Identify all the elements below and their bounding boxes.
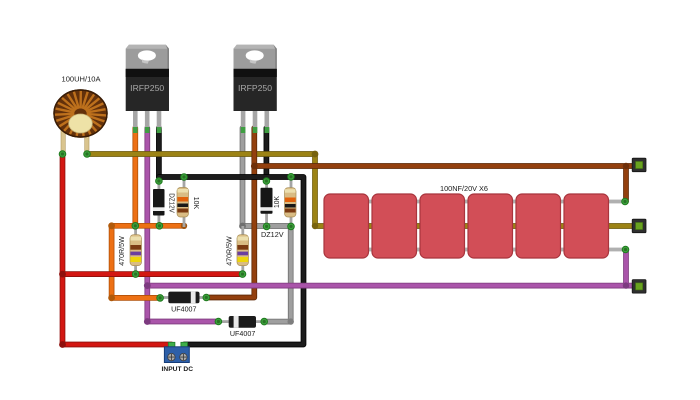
wire black Q1 source drop <box>156 128 162 177</box>
resistor R3 10K <box>285 179 297 227</box>
resistor R1 10K <box>177 179 189 227</box>
node zener DZ2 bottom <box>263 223 270 230</box>
wire olive inductor output bus <box>87 154 639 226</box>
svg-text:100UH/10A: 100UH/10A <box>62 75 101 84</box>
node orange junction R2 top <box>132 223 139 230</box>
wire brown top horizontal to connector J1 <box>254 166 639 202</box>
node inductor right leg <box>84 151 91 158</box>
wire orange Q1 gate vertical <box>132 128 138 226</box>
bend dot red corner <box>59 341 66 348</box>
svg-text:10K: 10K <box>192 197 201 210</box>
transistor Q2 IRFP250 <box>234 45 277 133</box>
svg-text:IRFP250: IRFP250 <box>130 83 164 93</box>
wire black gate bus and ground return <box>159 177 304 345</box>
wire gray Q2 leg1 vertical and bus <box>243 128 292 226</box>
zener diode DZ1 DZ12V <box>153 179 165 227</box>
svg-text:INPUT DC: INPUT DC <box>162 366 194 373</box>
diode D2 UF4007 <box>217 316 265 328</box>
svg-text:470R/5W: 470R/5W <box>117 236 126 266</box>
capacitor C5 <box>516 194 561 258</box>
bend dot brown tee <box>251 163 258 170</box>
bend dot orange corner lower <box>108 295 115 302</box>
node resistor R3 bottom <box>288 223 295 230</box>
bend dot purple corner <box>144 318 151 325</box>
wire brown Q2 leg2 to diode D1 <box>206 128 254 298</box>
svg-text:DZ12V: DZ12V <box>261 230 284 239</box>
bend dot orange end at resistor R2 <box>181 223 187 229</box>
capacitor C3 <box>420 194 465 258</box>
bend dot red tee <box>59 271 66 278</box>
capacitor C6 <box>564 194 609 258</box>
capacitor C1 <box>324 194 369 258</box>
wire gray lower to diode D2 <box>264 226 291 322</box>
bend dot gray corner <box>288 318 294 324</box>
node resistor R3 top <box>288 174 295 181</box>
capacitor lead bus top <box>350 200 623 204</box>
svg-text:10K: 10K <box>272 196 281 208</box>
svg-text:UF4007: UF4007 <box>230 329 255 338</box>
transistor Q1 IRFP250 <box>126 45 169 133</box>
svg-text:IRFP250: IRFP250 <box>238 83 272 93</box>
capacitor C2 <box>372 194 417 258</box>
bend dot purple corner right <box>623 282 629 288</box>
node capacitor bottom right <box>622 246 629 253</box>
wire black Q2 source drop <box>264 128 270 177</box>
node resistor R1 top <box>181 174 188 181</box>
wire red input positive <box>63 154 243 345</box>
node capacitor top right <box>622 198 629 205</box>
node resistor R2 bottom <box>132 271 139 278</box>
bend dot olive corner lower <box>312 223 318 229</box>
bend dot olive corner top <box>312 151 319 158</box>
bend dot gray junction <box>239 223 246 230</box>
connector J2 <box>632 219 646 233</box>
connector J3 <box>632 280 646 294</box>
node diode D2 anode <box>215 318 222 325</box>
capacitor C4 <box>468 194 513 258</box>
node diode D1 cathode <box>203 294 210 301</box>
connector J1 <box>632 158 646 172</box>
node inductor left leg <box>59 151 66 158</box>
node zener DZ1 bottom <box>156 223 163 230</box>
capacitor lead bus bottom <box>350 248 623 252</box>
wire purple long output <box>147 250 639 322</box>
resistor R4 470R/5W <box>237 226 249 274</box>
svg-text:470R/5W: 470R/5W <box>224 236 233 266</box>
bend dot brown corner right <box>623 163 629 169</box>
svg-text:DZ12V: DZ12V <box>167 193 176 213</box>
node diode D1 anode <box>157 295 164 302</box>
node zener DZ1 top <box>156 178 163 185</box>
resistor R2 470R/5W <box>130 226 142 274</box>
zener diode DZ2 DZ12V <box>261 179 273 227</box>
wire purple Q1 drain vertical <box>144 128 150 322</box>
bend dot orange corner upper <box>108 222 115 229</box>
inductor L1 100UH/10A <box>54 90 107 153</box>
node zener DZ2 top <box>263 178 270 185</box>
svg-text:100NF/20V X6: 100NF/20V X6 <box>440 184 488 193</box>
diode D1 UF4007 <box>159 292 207 304</box>
node resistor R4 bottom <box>239 271 246 278</box>
node diode D2 cathode <box>261 318 268 325</box>
bend dot purple junction <box>144 282 151 289</box>
terminal block J4 INPUT DC <box>164 342 189 362</box>
svg-text:UF4007: UF4007 <box>171 305 196 314</box>
wire orange lower loop to diode D1 <box>112 226 184 298</box>
